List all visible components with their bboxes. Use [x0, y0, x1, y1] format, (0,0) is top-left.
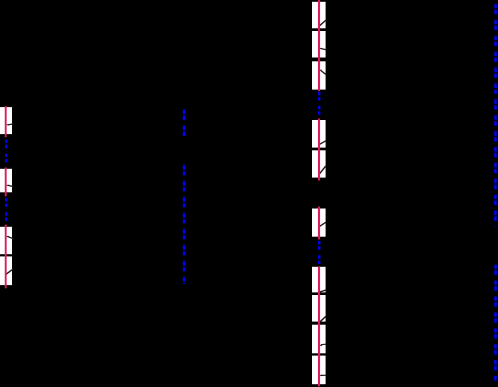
resistor R7	[312, 61, 326, 89]
wire red net segment C3	[318, 207, 320, 240]
resistor R3	[0, 227, 14, 254]
resistor R8	[312, 120, 326, 148]
wire blue dashed net segment A5	[5, 198, 7, 223]
wire blue dashed net segment C6	[318, 241, 320, 264]
wire blue dashed net segment B2	[183, 165, 185, 284]
resistor R5	[312, 2, 326, 29]
wire red net segment A2	[5, 167, 7, 196]
wire red net segment C2	[318, 119, 320, 181]
wire red net segment C4	[318, 266, 320, 386]
wire red net segment A3	[5, 225, 7, 289]
wire blue dashed net segment D2	[494, 265, 497, 382]
resistor R2	[0, 169, 14, 193]
wire red net segment A1	[5, 106, 7, 137]
resistor R4	[0, 256, 13, 285]
resistor R14	[312, 356, 326, 385]
resistor R10	[312, 209, 326, 237]
wire blue dashed net segment D1	[494, 4, 497, 227]
resistor R9	[312, 150, 326, 177]
resistor R1	[0, 107, 14, 134]
wire red net segment C1	[318, 0, 320, 91]
wire blue dashed net segment A4	[5, 140, 7, 163]
resistor R13	[312, 325, 326, 354]
wire blue dashed net segment C5	[318, 92, 320, 116]
resistor R12	[312, 295, 326, 323]
resistor R6	[312, 31, 327, 58]
resistor R11	[312, 267, 326, 293]
wire blue dashed net segment B1	[183, 110, 185, 137]
